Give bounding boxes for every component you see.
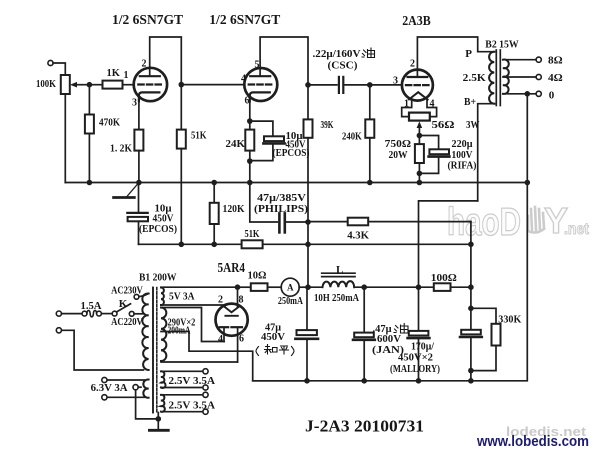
svg-text:24K: 24K	[226, 138, 246, 150]
svg-text:K: K	[119, 298, 128, 310]
resistor 120K bleeder	[213, 183, 215, 203]
resistor 240K grid leak	[369, 85, 371, 120]
svg-text:250mA: 250mA	[278, 295, 303, 307]
node B+ main junction	[416, 284, 422, 290]
wire fuse to switch	[101, 313, 112, 315]
resistor 1K	[103, 81, 123, 89]
wire 6.3V CT to ground point	[136, 390, 159, 419]
svg-text:AC230V: AC230V	[111, 284, 143, 296]
node 100 ohm output junction	[468, 284, 474, 290]
pin 6 lead 5AR4	[237, 327, 239, 362]
grid U1 dashes	[138, 83, 161, 85]
svg-text:100K: 100K	[36, 78, 56, 90]
wire 39K down to B+ node	[307, 138, 309, 222]
capacitor .47u oil 600V JAN	[363, 287, 365, 332]
capacitor 47u 450V Heping	[306, 287, 308, 330]
svg-text:2: 2	[218, 295, 223, 306]
wiper arrow of 100K	[76, 84, 89, 86]
filament 2A3	[409, 92, 428, 99]
filament 5AR4	[224, 307, 239, 313]
svg-text:450V: 450V	[261, 331, 285, 343]
filament pin 4 lead	[427, 100, 437, 117]
hum pot wiper arrow	[417, 121, 423, 128]
wire plate U1 up and over	[150, 37, 182, 85]
resistor 1.2K	[134, 130, 143, 151]
svg-text:AC220V: AC220V	[111, 316, 143, 328]
wire node down through feed rail	[307, 222, 309, 287]
svg-text:1: 1	[124, 70, 129, 81]
wire AC220V tap	[134, 313, 143, 315]
B+ feed rail	[139, 243, 471, 245]
svg-text:4: 4	[218, 334, 223, 345]
wires and terminals 2.5V first	[161, 370, 203, 372]
svg-text:(PHILIPS): (PHILIPS)	[254, 203, 308, 215]
wires and terminals 2.5V second	[161, 394, 203, 396]
capacitor 10u 450V EPCOS cathode bypass	[250, 121, 273, 136]
wire cathode U1 to 1.2K	[138, 101, 140, 129]
wire 5V top to rectifier line	[161, 286, 238, 288]
svg-text:P: P	[465, 48, 472, 60]
wire 290V bottom end to pin 6	[161, 361, 238, 363]
plate U1	[140, 75, 160, 77]
svg-text:4: 4	[430, 99, 435, 110]
svg-text:A: A	[287, 283, 294, 293]
svg-text:20W: 20W	[389, 149, 408, 161]
node cathode U2 junction	[247, 118, 253, 124]
ground rail PSU bottom	[253, 183, 528, 381]
node transformer ground junction	[156, 416, 162, 422]
terminal 0	[536, 91, 541, 96]
wire junction to 1K	[89, 84, 102, 86]
svg-text:L: L	[336, 264, 343, 276]
capacitor .22u/160V plates	[338, 77, 340, 93]
svg-text:1: 1	[404, 99, 409, 110]
node grid1 junction	[87, 82, 93, 88]
svg-text:5V 3A: 5V 3A	[169, 291, 195, 303]
terminal 6.3V center tap	[133, 385, 138, 390]
resistor 470K	[85, 115, 94, 134]
wire secondary 4 ohm tap	[503, 76, 536, 78]
node 2A3 cathode junction	[417, 133, 423, 139]
wire coupling to grid U2	[181, 84, 244, 86]
pin 2 lead 5AR4	[224, 305, 226, 307]
plate bars 5AR4	[220, 326, 228, 328]
svg-text:1K: 1K	[107, 68, 121, 79]
svg-text:2: 2	[142, 59, 147, 70]
wire B+ lead of B2 down	[478, 104, 495, 201]
pin 4 lead 5AR4	[223, 327, 225, 341]
output transformer B2 secondary winding	[503, 60, 509, 94]
wire 100K bottom to ground rail	[64, 94, 66, 183]
cathode U2	[250, 92, 270, 101]
winding 2.5V 3.5A first	[161, 371, 166, 388]
wire 470K bottom to ground rail	[88, 134, 90, 183]
cathode U1	[139, 92, 160, 101]
svg-text:2.5V 3.5A: 2.5V 3.5A	[169, 375, 216, 387]
capacitor 10u 450V EPCOS decoupling	[138, 183, 140, 213]
ground symbol transformer	[157, 413, 159, 431]
svg-text:3: 3	[393, 76, 398, 87]
svg-text:2: 2	[410, 59, 415, 70]
svg-text:100Ω: 100Ω	[431, 272, 457, 284]
svg-text:haoD: haoD	[447, 201, 521, 244]
wire plate 2A3 to output transformer P	[417, 37, 494, 77]
svg-text:5: 5	[255, 60, 260, 71]
svg-text:.22μ/160V: .22μ/160V	[313, 48, 361, 60]
resistor 100 ohm	[434, 283, 451, 291]
svg-text:200mA: 200mA	[168, 325, 191, 337]
wire B+ from transformer step	[419, 201, 478, 287]
svg-text:10Ω: 10Ω	[248, 269, 267, 281]
wire junction to 470K	[88, 85, 90, 115]
input terminal	[48, 60, 53, 65]
winding 290Vx2 200mA	[161, 308, 166, 362]
wire coupling cap to 2A3 grid node	[343, 84, 370, 86]
svg-text:2.5V 3.5A: 2.5V 3.5A	[169, 400, 216, 412]
svg-text:470K: 470K	[99, 117, 120, 129]
fuse 1.5A	[82, 311, 87, 316]
svg-text:B+: B+	[464, 96, 476, 108]
glyph oil char for .22u	[362, 48, 375, 58]
node 750 ohm bottom junction	[417, 171, 423, 177]
wire plate U2 up and over	[260, 37, 308, 85]
node pin 8 junction	[235, 284, 241, 290]
choke L winding	[308, 286, 323, 288]
terminal AC input upper	[56, 311, 61, 316]
node choke output junction	[361, 284, 367, 290]
wire to 100 ohm	[419, 286, 434, 288]
node 0 tap junction	[525, 91, 531, 97]
wire AC230V to primary top	[139, 294, 149, 297]
grid U2 dashes	[249, 83, 272, 85]
wire input to 100K top	[53, 63, 65, 75]
node 330K top junction	[468, 306, 474, 312]
svg-text:6: 6	[245, 96, 250, 107]
resistor 51K series dropper	[242, 240, 263, 248]
glyph oil char for .47u	[394, 324, 408, 334]
svg-text:1. 2K: 1. 2K	[110, 143, 132, 155]
filament pin 1 lead	[402, 100, 412, 117]
svg-text:8: 8	[239, 295, 244, 306]
resistor 39K plate load	[307, 85, 309, 120]
svg-text:6.3V 3A: 6.3V 3A	[91, 382, 128, 394]
grid 2A3 dashes	[406, 84, 429, 86]
winding 6.3V 3A	[143, 379, 148, 397]
wire 1.2K to ground rail	[138, 151, 140, 183]
wire 2A3 cathode net to ground rail	[418, 173, 420, 182]
svg-text:(EPCOS): (EPCOS)	[273, 147, 310, 159]
wire cathode U2 down	[249, 101, 251, 121]
hum pot 56 ohm body	[409, 113, 430, 121]
svg-text:10H 250mA: 10H 250mA	[314, 292, 359, 304]
chassis ground symbol	[127, 183, 139, 198]
wire feed corner down	[470, 222, 472, 288]
triode U1 1/2 6SN7GT	[134, 68, 167, 101]
wire cathode net to ground rail	[249, 161, 251, 182]
svg-text:1.5A: 1.5A	[81, 300, 102, 312]
resistor 24K cathode	[249, 121, 251, 130]
wire secondary 8 ohm tap	[503, 59, 536, 61]
terminal 8 ohm	[536, 57, 541, 62]
capacitor .22u/160V coupling lead left	[308, 84, 337, 86]
svg-text:(RIFA): (RIFA)	[448, 160, 477, 172]
wire 51K down to B+ feed rail	[180, 149, 182, 245]
node plate U1 load junction	[179, 82, 185, 88]
wire 0 tap down to ground rail	[526, 94, 528, 183]
resistor 750 ohm 20W	[418, 136, 420, 145]
transformer B1 primary winding	[142, 293, 148, 370]
glyph Heping chars	[256, 345, 294, 356]
svg-text:330K: 330K	[498, 314, 521, 326]
svg-text:2A3B: 2A3B	[402, 14, 431, 29]
watermark haoDIY.net	[447, 200, 590, 244]
node choke input junction	[305, 284, 311, 290]
terminal AC220V	[129, 311, 134, 316]
output transformer B2 core	[495, 50, 497, 106]
svg-text:(MALLORY): (MALLORY)	[390, 363, 440, 375]
svg-text:J-2A3 20100731: J-2A3 20100731	[305, 417, 424, 436]
wire secondary 0 tap	[503, 93, 536, 95]
svg-text:.net: .net	[564, 221, 590, 238]
transformer B1 core	[152, 288, 154, 413]
svg-text:3: 3	[132, 98, 137, 109]
choke L core	[322, 272, 355, 274]
svg-text:4: 4	[241, 74, 246, 85]
meter A 250mA	[281, 278, 299, 296]
pin 8 lead 5AR4	[237, 287, 239, 307]
node cathode bypass return	[247, 158, 253, 164]
svg-text:4Ω: 4Ω	[548, 72, 563, 84]
winding 5V 3A	[161, 288, 164, 306]
cathode bar 5AR4	[225, 315, 237, 317]
resistor 330K bleeder	[471, 308, 496, 324]
resistor 51K plate load	[180, 85, 182, 130]
node B+ driver feed junction	[305, 219, 311, 225]
svg-text:39K: 39K	[321, 119, 334, 131]
plate U2	[250, 75, 270, 77]
svg-text:B1 200W: B1 200W	[139, 272, 177, 284]
svg-text:3W: 3W	[466, 119, 480, 131]
ground rail top	[65, 182, 527, 184]
svg-text:www.lobedis.com: www.lobedis.com	[476, 433, 589, 450]
wire 290V center tap to ground	[161, 332, 306, 381]
resistor 10 ohm	[251, 283, 268, 291]
svg-text:240K: 240K	[342, 130, 362, 142]
wire 1K to grid pin 1	[123, 84, 134, 86]
switch K	[112, 311, 117, 316]
plate 2A3	[408, 76, 428, 78]
wire lower input to primary bottom	[62, 330, 144, 370]
node 330K bottom junction	[468, 368, 474, 374]
wire 290V top end to pin 4	[161, 308, 224, 342]
rectifier tube 5AR4	[216, 304, 248, 336]
svg-text:B2 15W: B2 15W	[485, 39, 518, 51]
triode U2 1/2 6SN7GT	[244, 68, 277, 101]
output transformer B2 primary winding	[489, 52, 494, 104]
terminal AC230V	[134, 294, 139, 299]
wire rectifier output line	[238, 286, 251, 288]
svg-text:450V×2: 450V×2	[398, 352, 433, 364]
svg-text:6: 6	[239, 334, 244, 345]
svg-text:(CSC): (CSC)	[328, 60, 358, 72]
power tube 2A3B	[402, 70, 433, 101]
svg-text:5AR4: 5AR4	[218, 261, 246, 276]
wire 5V bottom to pin 2	[161, 304, 225, 306]
wire to 2A3 grid pin 3	[370, 84, 402, 86]
svg-text:120K: 120K	[223, 203, 245, 215]
node dots on ground rail	[87, 180, 93, 186]
svg-text:1/2 6SN7GT: 1/2 6SN7GT	[209, 13, 281, 28]
capacitor 47u/385V PHILIPS	[250, 183, 278, 223]
svg-text:4.3K: 4.3K	[347, 230, 369, 242]
svg-text:2.5K: 2.5K	[463, 72, 486, 84]
wires and terminals 6.3V	[107, 379, 144, 381]
winding 2.5V 3.5A second	[161, 395, 165, 412]
terminal AC input lower	[56, 328, 61, 333]
node plate U2 junction	[305, 82, 311, 88]
svg-text:8Ω: 8Ω	[548, 55, 563, 67]
wire to fuse	[62, 313, 83, 315]
svg-text:51K: 51K	[191, 130, 207, 142]
svg-text:0: 0	[549, 89, 555, 101]
svg-text:1/2 6SN7GT: 1/2 6SN7GT	[112, 13, 184, 28]
svg-text:56Ω: 56Ω	[432, 119, 455, 131]
svg-text:(EPCOS): (EPCOS)	[139, 223, 177, 235]
potentiometer 100K	[61, 75, 70, 94]
capacitor 170u/450V second MALLORY	[470, 287, 472, 330]
node 2A3 grid junction	[367, 82, 373, 88]
capacitor 170u/450V first MALLORY	[418, 287, 420, 331]
svg-text:51K: 51K	[245, 228, 260, 240]
terminal 4 ohm	[536, 74, 541, 79]
resistor 4.3K series dropper	[308, 221, 348, 223]
capacitor 220u/100V RIFA	[419, 136, 438, 150]
